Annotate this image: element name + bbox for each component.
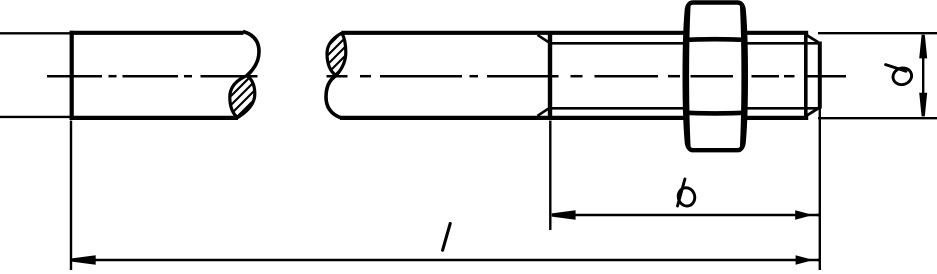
dimension line d xyxy=(922,36,924,116)
break symbol left: hatched lens xyxy=(230,76,255,118)
rod end chamfer bottom diagonal xyxy=(806,108,818,116)
hex nut right facet edge xyxy=(742,5,744,147)
thread start line xyxy=(548,31,552,120)
label b xyxy=(676,179,697,208)
hex nut left facet edge xyxy=(687,5,689,147)
rod end chamfer circle line xyxy=(804,31,808,120)
hex nut top chamfer arc xyxy=(684,37,746,42)
rod bottom outline segment 3 (right of nut) xyxy=(743,116,808,120)
hex nut M-size: silhouette xyxy=(685,3,746,151)
rod end face xyxy=(818,42,822,109)
break symbol right: hatched lens xyxy=(327,33,346,76)
break symbol left: upper S-curve xyxy=(243,32,259,76)
thread minor diameter bottom line xyxy=(552,107,685,110)
dimension line l xyxy=(73,259,819,261)
arrowhead d bottom xyxy=(919,93,927,117)
break symbol right: lower S-curve xyxy=(326,76,341,118)
thread minor diameter top line xyxy=(552,42,685,45)
rod top outline segment 1 xyxy=(70,31,244,35)
rod left end face xyxy=(70,31,74,120)
rod left stub thin bottom line xyxy=(0,116,70,118)
rod top outline segment 2 xyxy=(342,31,686,35)
extension line bottom (for d) xyxy=(818,117,937,119)
label d xyxy=(886,65,914,87)
dimension line b xyxy=(553,214,818,216)
centerline (dash-dot axis) xyxy=(47,75,846,78)
arrowhead l left xyxy=(72,255,96,265)
thread runout chamfer top xyxy=(538,35,549,42)
arrowhead l right xyxy=(796,255,820,265)
extension line top (for d) xyxy=(818,32,937,34)
break symbol left: lens hatching xyxy=(226,60,258,137)
label l xyxy=(443,224,451,251)
hex nut bottom chamfer arc xyxy=(684,110,746,115)
thread runout chamfer bottom xyxy=(538,109,549,116)
arrowhead d top xyxy=(919,35,927,59)
extension line rod end (for b and l) xyxy=(819,109,821,271)
arrowhead b left xyxy=(552,210,576,220)
extension line left (for l) xyxy=(70,121,72,270)
rod left stub thin top line xyxy=(0,32,70,34)
rod bottom outline segment 1 xyxy=(70,116,238,120)
arrowhead b right xyxy=(795,210,819,220)
rod end chamfer top diagonal xyxy=(806,35,818,42)
rod top outline segment 3 (right of nut) xyxy=(743,31,808,35)
break symbol right: lens hatching xyxy=(322,20,354,88)
rod bottom outline segment 2 xyxy=(340,116,685,120)
extension line thread start (for b) xyxy=(549,121,551,230)
